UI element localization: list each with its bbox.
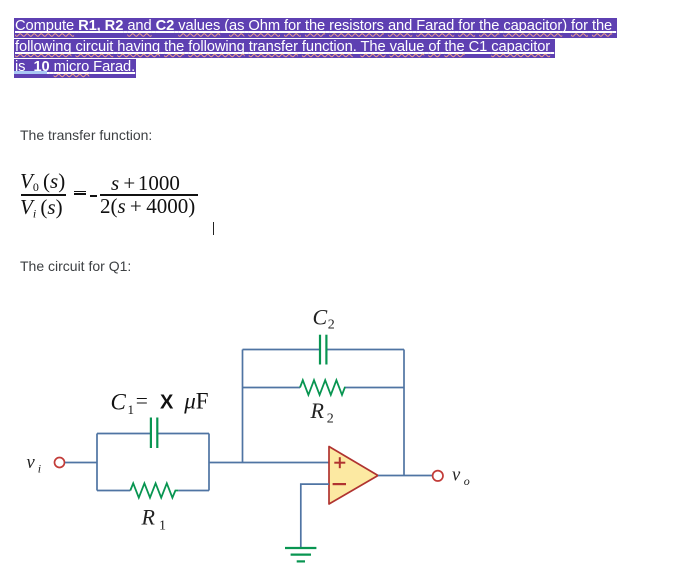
wire feedback R2 branch [243, 387, 405, 389]
ground [285, 548, 316, 561]
wire minus input [301, 484, 329, 547]
wire vi to network [65, 462, 97, 464]
capacitor C2 [320, 335, 326, 365]
svg-text:1: 1 [128, 402, 135, 417]
svg-text:o: o [464, 474, 470, 488]
heading line 2 [14, 38, 555, 59]
capacitor C1 [151, 418, 157, 449]
paragraph: The transfer function: [20, 127, 152, 143]
input terminal vi [55, 458, 65, 468]
wire feedback left vertical [242, 350, 244, 463]
svg-text:C: C [313, 304, 328, 329]
wire op-amp output [378, 475, 433, 477]
resistor R2 [300, 380, 346, 395]
svg-text:v: v [452, 466, 461, 486]
wire input network box [97, 434, 209, 491]
equation [20, 169, 65, 195]
svg-text:C: C [111, 390, 127, 415]
node vi label [27, 453, 42, 476]
text cursor [213, 222, 215, 235]
output terminal vo [433, 471, 443, 481]
R1 label [141, 505, 167, 534]
svg-text:2: 2 [327, 412, 334, 427]
C2 label [313, 304, 335, 332]
svg-text:X: X [160, 392, 174, 414]
svg-text:=: = [136, 389, 148, 413]
svg-text:μ: μ [183, 389, 196, 414]
op-amp plus mark [334, 457, 345, 468]
resistor R1 [130, 483, 178, 497]
R2 label [310, 398, 334, 427]
paragraph: The circuit for Q1: [20, 258, 131, 274]
svg-text:F: F [196, 389, 209, 414]
node vo label [452, 466, 470, 488]
svg-text:1: 1 [159, 519, 166, 534]
svg-text:R: R [141, 505, 156, 530]
wire network to op-amp + input [209, 462, 329, 464]
svg-text:v: v [27, 453, 36, 473]
op-amp U1 [329, 447, 378, 505]
svg-text:i: i [38, 462, 41, 476]
wire feedback right vertical [403, 350, 405, 476]
wire feedback top with C2 gap [243, 349, 405, 351]
op-amp minus mark [333, 483, 346, 485]
svg-text:R: R [310, 398, 325, 423]
heading line 1 [14, 17, 617, 38]
blue grammar line under "is 10" [14, 71, 47, 73]
svg-text:2: 2 [328, 318, 335, 333]
C1 value label [111, 389, 209, 418]
heading line 3 [14, 58, 136, 79]
